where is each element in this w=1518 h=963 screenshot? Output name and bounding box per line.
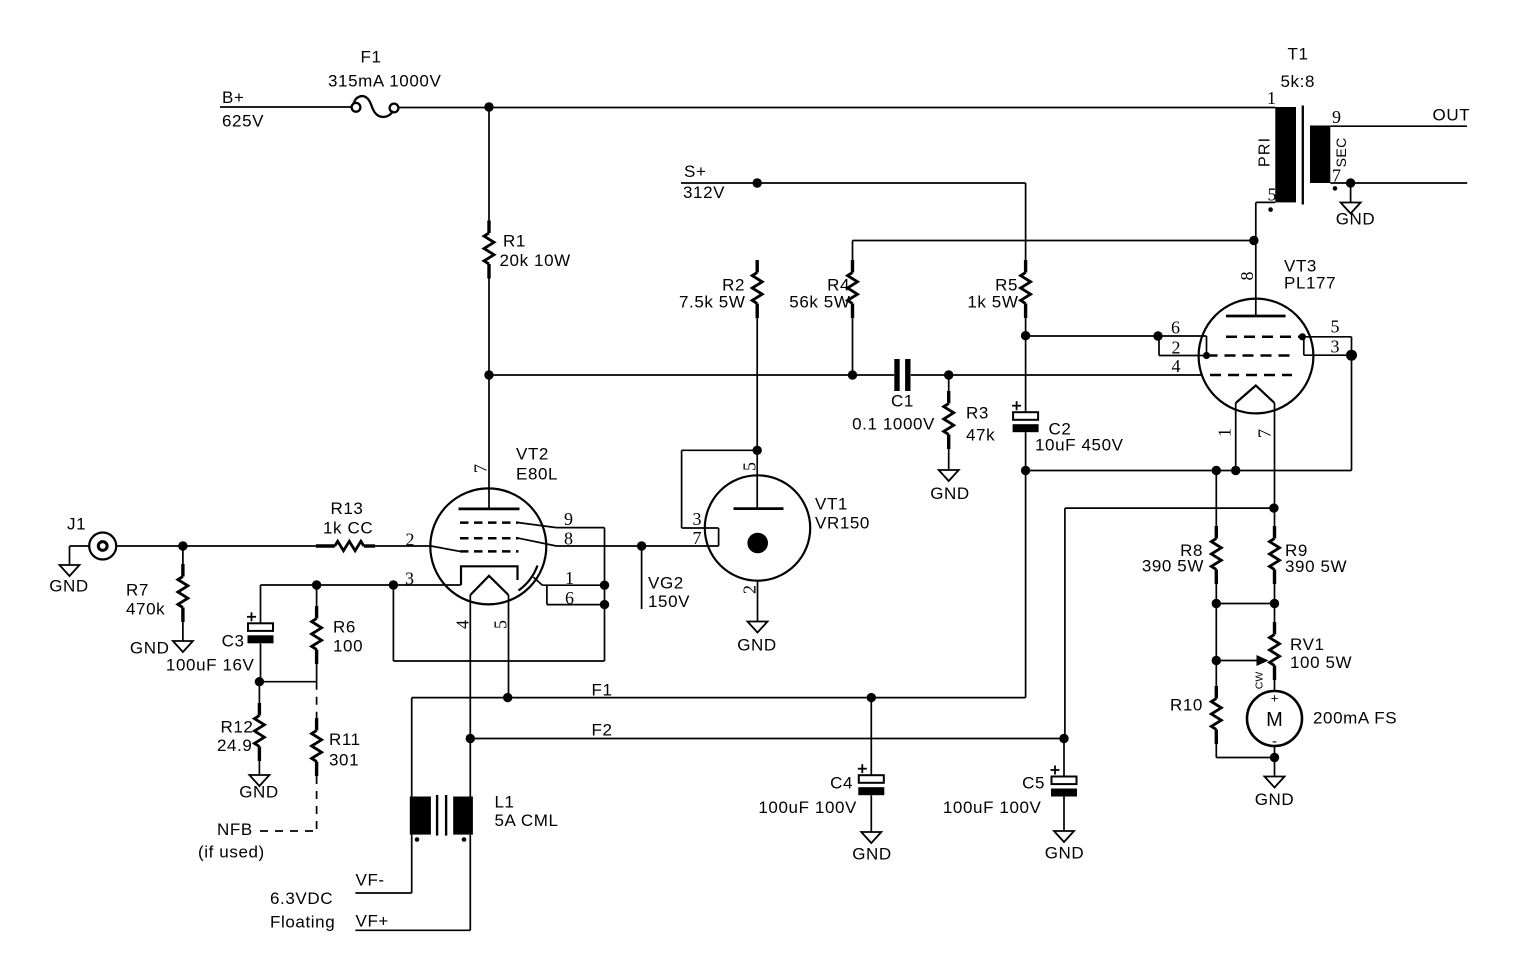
- wire R8 bottom lead: [1215, 584, 1217, 604]
- pin 8 VT3: [1237, 272, 1257, 281]
- svg-text:7.5k 5W: 7.5k 5W: [679, 293, 746, 312]
- svg-text:7: 7: [693, 528, 702, 548]
- wire R11 dashed bottom: [316, 776, 318, 831]
- wire L1 to VF-: [355, 835, 411, 893]
- label R5: [967, 276, 1018, 312]
- svg-text:100: 100: [333, 637, 363, 656]
- svg-text:C5: C5: [1022, 774, 1045, 793]
- resistor R10: [1211, 686, 1221, 744]
- pin 7 VT1: [693, 528, 702, 548]
- svg-text:56k 5W: 56k 5W: [789, 293, 850, 312]
- svg-text:4: 4: [452, 620, 472, 629]
- VT1 gas dot: [747, 533, 768, 554]
- svg-text:OUT: OUT: [1433, 106, 1471, 125]
- wire R3 to ground: [948, 449, 950, 470]
- wire C2 down to F1 corner: [1025, 471, 1027, 698]
- svg-text:100uF 16V: 100uF 16V: [166, 656, 255, 675]
- phase dot T1 secondary: [1333, 186, 1338, 191]
- label L1: [495, 793, 559, 831]
- wire VT2 tie bottom: [393, 660, 604, 662]
- VT2 pin9 diagonal: [519, 523, 557, 528]
- svg-text:GND: GND: [1045, 844, 1085, 863]
- node OUT: [1433, 106, 1471, 125]
- VT2 pin1 diagonal: [533, 577, 542, 585]
- svg-text:3: 3: [1331, 337, 1340, 357]
- svg-text:F2: F2: [592, 721, 613, 740]
- svg-text:5k:8: 5k:8: [1281, 72, 1316, 91]
- wire VT2 pin 3: [261, 584, 462, 586]
- pin 2 VT3: [1172, 338, 1181, 358]
- junction B+/R1: [484, 102, 493, 111]
- pin 7 T1: [1332, 166, 1341, 186]
- ground R12: [239, 775, 279, 802]
- wire C3 drop: [260, 585, 262, 623]
- svg-text:R7: R7: [126, 581, 149, 600]
- label RV1: [1290, 635, 1352, 672]
- wire R2 to VT1 top: [756, 318, 758, 450]
- svg-text:9: 9: [564, 509, 573, 529]
- svg-text:2: 2: [1172, 338, 1181, 358]
- svg-text:J1: J1: [67, 515, 86, 534]
- svg-text:4: 4: [1172, 356, 1181, 376]
- wire R6 bottom lead: [316, 664, 318, 682]
- svg-text:7: 7: [471, 464, 491, 473]
- svg-text:8: 8: [1237, 272, 1257, 281]
- VT2 internal shield: [519, 566, 538, 591]
- VT3 screen grid: [1226, 336, 1302, 339]
- label R11: [329, 730, 361, 770]
- wire VT1 pin7 step: [718, 528, 720, 546]
- label CW: [1254, 672, 1266, 690]
- junction wiper tap: [1212, 656, 1221, 665]
- label R2: [679, 276, 746, 312]
- pin 1 T1: [1267, 88, 1276, 108]
- wire plate node to C1: [489, 374, 894, 376]
- svg-text:SEC: SEC: [1333, 137, 1349, 167]
- svg-text:PL177: PL177: [1284, 274, 1336, 293]
- jack J1: [89, 533, 116, 560]
- wire L1 to VF+: [355, 835, 470, 931]
- wire F2 riser horizontal: [1065, 507, 1274, 509]
- wire VT1 pin3 tie: [682, 450, 758, 528]
- svg-text:6: 6: [1171, 318, 1180, 338]
- net label F2: [592, 721, 613, 740]
- svg-text:6: 6: [565, 588, 574, 608]
- ground meter: [1255, 777, 1295, 810]
- label T1: [1281, 45, 1316, 92]
- resistor R4: [848, 260, 858, 318]
- resistor R1: [484, 221, 494, 279]
- pin 9 VT2: [564, 509, 573, 529]
- junction C1/R3: [944, 370, 953, 379]
- svg-text:R12: R12: [221, 718, 254, 737]
- svg-text:47k: 47k: [966, 426, 995, 445]
- VT3 pin5/pin3 tie: [1302, 337, 1351, 355]
- VT2 plate: [459, 507, 520, 510]
- wire VT2 pin 1: [542, 584, 604, 586]
- svg-text:VR150: VR150: [815, 514, 870, 533]
- svg-text:GND: GND: [930, 484, 970, 503]
- label R13: [323, 499, 373, 538]
- junction T1 pin5/R4/VT3 pin8: [1249, 236, 1258, 245]
- svg-text:100uF 100V: 100uF 100V: [943, 798, 1042, 817]
- capacitor C2: [1012, 401, 1124, 454]
- wire J1 ground stub: [70, 546, 90, 565]
- VT3 pin6/pin2 tie: [1159, 336, 1207, 356]
- junction VT3 pin2/g1: [1203, 352, 1210, 359]
- junction VT2 pin4/F2: [466, 734, 475, 743]
- pin 3 VT3: [1331, 337, 1340, 357]
- wire R3 top lead: [948, 375, 950, 391]
- resistor R9: [1270, 526, 1280, 584]
- wire R8 top lead: [1215, 471, 1217, 527]
- wire R8-R9 link: [1216, 603, 1274, 605]
- choke L1 right winding: [453, 797, 473, 835]
- wire R13 to VT2 pin 2: [375, 545, 431, 547]
- pin 5 T1: [1268, 185, 1277, 205]
- svg-text:F1: F1: [361, 48, 382, 67]
- svg-text:470k: 470k: [126, 600, 165, 619]
- svg-text:1k CC: 1k CC: [323, 519, 373, 538]
- junction C5/F2: [1059, 734, 1068, 743]
- svg-text:R1: R1: [503, 232, 526, 251]
- svg-text:C4: C4: [830, 774, 853, 793]
- pin 5 VT1: [739, 462, 759, 471]
- svg-text:150V: 150V: [648, 592, 690, 611]
- svg-text:S+: S+: [684, 162, 706, 181]
- tube VT2 envelope: [430, 488, 546, 604]
- wire VT3 pin3 down: [1351, 355, 1353, 470]
- pin 3 VT2: [405, 569, 414, 589]
- svg-text:T1: T1: [1288, 45, 1309, 64]
- pin 4 VT2: [452, 620, 472, 629]
- VT2 pin6 jog: [546, 585, 548, 604]
- wire C3-R6 link: [259, 681, 316, 683]
- wire C4 to ground: [870, 795, 872, 832]
- svg-text:6.3VDC: 6.3VDC: [270, 889, 333, 908]
- svg-text:7: 7: [1255, 429, 1275, 438]
- svg-text:1: 1: [1215, 428, 1235, 437]
- svg-text:R6: R6: [333, 618, 356, 637]
- svg-text:R11: R11: [329, 730, 361, 749]
- svg-text:GND: GND: [1336, 210, 1376, 229]
- svg-text:NFB: NFB: [217, 820, 253, 839]
- junction pin1/tie: [600, 581, 609, 590]
- label R3: [966, 404, 995, 445]
- junction R2/VT1 pin5: [753, 446, 762, 455]
- wire J1 to R13: [116, 545, 316, 547]
- wire B+ to F1: [220, 106, 352, 108]
- wire F2: [470, 738, 1065, 740]
- svg-text:100 5W: 100 5W: [1290, 653, 1352, 672]
- VT3 control grid: [1207, 354, 1292, 357]
- svg-text:L1: L1: [495, 793, 515, 812]
- svg-text:GND: GND: [130, 639, 170, 658]
- label heater supply: [270, 889, 335, 932]
- capacitor C3: [166, 612, 274, 674]
- svg-text:2: 2: [739, 585, 759, 594]
- VT2 grid g3: [460, 521, 519, 524]
- svg-text:301: 301: [329, 751, 359, 770]
- svg-text:0.1 1000V: 0.1 1000V: [852, 415, 935, 434]
- resistor R11: [312, 718, 322, 776]
- wire F1 to T1 pin 1: [398, 107, 1275, 109]
- wire R12 top lead: [258, 682, 260, 703]
- wire VT2 pin 8: [556, 545, 718, 547]
- junction pin1/cathode rail: [1231, 466, 1240, 475]
- svg-text:C3: C3: [222, 632, 245, 651]
- label R10: [1170, 696, 1203, 715]
- label R1: [500, 232, 571, 271]
- VT2 grid g2: [460, 537, 519, 540]
- svg-text:VG2: VG2: [648, 574, 684, 593]
- choke L1 left winding: [410, 797, 431, 835]
- wire R7 to ground: [182, 622, 184, 641]
- svg-text:5: 5: [490, 620, 510, 629]
- node B+: [222, 88, 264, 131]
- wire VT2 pin 6: [547, 604, 605, 606]
- wire VT3 pin 1 leg: [1235, 403, 1237, 471]
- VT2 cathode: [461, 566, 518, 585]
- wire R7 top lead: [182, 546, 184, 564]
- svg-text:3: 3: [693, 509, 702, 529]
- svg-text:GND: GND: [852, 845, 892, 864]
- junction R8/R9 link left: [1212, 599, 1221, 608]
- svg-text:5: 5: [1331, 317, 1340, 337]
- svg-text:315mA 1000V: 315mA 1000V: [328, 72, 441, 91]
- label meter rating: [1313, 709, 1397, 728]
- svg-text:Floating: Floating: [270, 913, 335, 932]
- wire F1: [412, 697, 1026, 699]
- svg-text:PRI: PRI: [1256, 137, 1273, 167]
- junction R8/R9 link right: [1270, 599, 1279, 608]
- wire C5 top: [1063, 739, 1065, 777]
- junction S+/R2: [753, 178, 762, 187]
- resistor R3: [944, 391, 954, 449]
- wire R4 top rail: [853, 240, 1254, 242]
- ground R3: [930, 470, 970, 503]
- wire RV1 to meter: [1274, 680, 1276, 691]
- net label F1: [592, 681, 613, 700]
- svg-text:VF+: VF+: [356, 912, 389, 931]
- node VG2: [648, 574, 690, 612]
- junction pin7/F2 riser wire: [1269, 503, 1278, 512]
- pin 7 VT3: [1255, 429, 1275, 438]
- ground VT1: [737, 622, 777, 655]
- node VF+: [356, 912, 389, 931]
- wire VT3 pin 7 leg: [1274, 403, 1276, 526]
- junction VT3 pin3: [1346, 350, 1357, 361]
- RV1 wiper arrow: [1216, 655, 1268, 666]
- svg-text:VT1: VT1: [815, 495, 848, 514]
- wire VT2 tie right vertical: [604, 528, 606, 661]
- svg-text:10uF 450V: 10uF 450V: [1035, 436, 1124, 455]
- wire F2 riser vertical: [1064, 508, 1066, 738]
- node VF-: [356, 871, 385, 890]
- resistor R5: [1021, 260, 1031, 318]
- resistor R6: [312, 606, 322, 664]
- phase dot L1 right: [462, 837, 467, 842]
- pin 7 VT2: [471, 464, 491, 473]
- phase dot T1 primary: [1268, 207, 1273, 212]
- wire T1 pin 5 jog: [1256, 202, 1276, 240]
- ground C4: [852, 832, 892, 864]
- wire link to RV1: [1274, 604, 1276, 623]
- wire VT2 pin 5 leg: [508, 595, 510, 698]
- svg-text:312V: 312V: [683, 183, 725, 202]
- resistor R7: [178, 564, 188, 622]
- wire VT2 pin 9: [556, 527, 604, 529]
- label R6: [333, 618, 363, 656]
- wire R4 to C1 wire: [852, 318, 854, 375]
- junction C2/cathode rail: [1021, 466, 1030, 475]
- junction T1 pin7/GND: [1346, 178, 1355, 187]
- pin 1 VT3: [1215, 428, 1235, 437]
- tube VT3 envelope: [1199, 299, 1314, 414]
- wire VT1 pin 5 lead: [756, 450, 758, 508]
- pin 5 VT3: [1331, 317, 1340, 337]
- ground R7: [130, 639, 193, 658]
- tube VT1 envelope: [705, 475, 810, 580]
- node S+: [683, 162, 725, 202]
- svg-text:24.9: 24.9: [217, 736, 253, 755]
- VT3 plate: [1226, 315, 1286, 318]
- VT2 pin8 diagonal: [519, 538, 557, 546]
- svg-text:+: +: [1271, 691, 1279, 706]
- pin 6 VT3: [1171, 318, 1180, 338]
- fuse F1: [328, 48, 441, 117]
- capacitor C5: [943, 766, 1077, 818]
- wire VT3 pin 8 lead: [1255, 241, 1257, 317]
- svg-text:GND: GND: [1255, 790, 1295, 809]
- capacitor C4: [758, 764, 884, 817]
- potentiometer RV1: [1270, 622, 1280, 680]
- wire C4 top: [870, 698, 872, 776]
- meter M1: [1247, 691, 1302, 751]
- junction grid rail/pin6: [1153, 331, 1162, 340]
- svg-text:RV1: RV1: [1290, 635, 1325, 654]
- wire VT3 grid rail: [1026, 335, 1207, 337]
- junction pin3/tie: [389, 580, 398, 589]
- VT2 pin2 diagonal: [431, 546, 460, 551]
- ground J1: [49, 565, 89, 596]
- resistor R13: [316, 541, 375, 550]
- VT2 heater: [470, 576, 508, 595]
- pin 2 VT2: [406, 530, 415, 550]
- junction R6 top: [312, 580, 321, 589]
- wire T1 pin 7 out: [1330, 182, 1467, 184]
- VT1 plate: [734, 507, 784, 510]
- svg-text:R13: R13: [331, 499, 364, 518]
- svg-text:5: 5: [739, 462, 759, 471]
- wire VT2 tie left vertical: [392, 585, 394, 661]
- svg-text:5A CML: 5A CML: [495, 811, 559, 830]
- svg-text:3: 3: [405, 569, 414, 589]
- pin 8 VT2: [564, 529, 573, 549]
- junction VT2 pin5/F1: [503, 693, 512, 702]
- junction R4/C1 wire: [848, 370, 857, 379]
- pin 6 VT2: [565, 588, 574, 608]
- label R4: [789, 276, 850, 312]
- svg-text:R3: R3: [966, 404, 989, 423]
- wire R11 dashed top: [316, 682, 318, 718]
- svg-text:1: 1: [1267, 88, 1276, 108]
- label R12: [217, 718, 254, 756]
- label J1: [67, 515, 86, 534]
- label VT1: [815, 495, 870, 533]
- svg-text:9: 9: [1332, 107, 1341, 127]
- wire S+ rail: [681, 182, 1026, 184]
- wire R4 top lead: [852, 241, 854, 261]
- svg-text:VF-: VF-: [356, 871, 385, 890]
- junction pin6/tie: [600, 600, 609, 609]
- wire F1 to L1: [411, 698, 413, 797]
- svg-text:100uF 100V: 100uF 100V: [758, 798, 857, 817]
- svg-text:GND: GND: [239, 783, 279, 802]
- junction C3/R12: [255, 677, 264, 686]
- wire R5 to C2: [1025, 318, 1027, 412]
- wire T1 pin7 to ground: [1350, 183, 1352, 203]
- resistor R2: [752, 260, 762, 318]
- pin 4 VT3: [1172, 356, 1181, 376]
- svg-text:M: M: [1266, 709, 1283, 731]
- svg-text:1k 5W: 1k 5W: [967, 293, 1018, 312]
- wire F2 to L1: [469, 739, 471, 797]
- transformer T1 primary winding: [1275, 107, 1296, 202]
- junction R1/C1 wire/VT2 plate: [484, 370, 493, 379]
- transformer T1 secondary winding: [1310, 126, 1330, 184]
- choke L1 core: [437, 795, 446, 836]
- wire R9 bottom lead: [1274, 584, 1276, 604]
- label R8: [1142, 541, 1204, 576]
- junction J1/R7: [178, 541, 187, 550]
- resistor R8: [1211, 526, 1221, 584]
- svg-text:F1: F1: [592, 681, 613, 700]
- wire C3 bottom: [260, 643, 262, 681]
- wire R6 top lead: [316, 585, 318, 606]
- svg-text:5: 5: [1268, 185, 1277, 205]
- label VT3: [1284, 257, 1336, 293]
- wire R1 to VT2 plate node: [488, 279, 490, 376]
- svg-text:200mA FS: 200mA FS: [1313, 709, 1397, 728]
- svg-text:1: 1: [565, 568, 574, 588]
- wire VT2 plate lead: [488, 375, 490, 509]
- pin 2 VT1: [739, 585, 759, 594]
- label R7: [126, 581, 165, 619]
- ground C5: [1045, 831, 1085, 863]
- wire R8 link to wiper: [1215, 604, 1217, 687]
- junction R8/cathode rail: [1212, 466, 1221, 475]
- wire R12 to ground: [258, 761, 260, 775]
- pin 1 VT2: [565, 568, 574, 588]
- wire VT1 pin 2 lead: [757, 581, 759, 622]
- junction R5/VT3 grid wire: [1021, 331, 1030, 340]
- junction VG2: [637, 541, 646, 550]
- svg-text:R10: R10: [1170, 696, 1203, 715]
- label PRI: [1256, 137, 1273, 167]
- svg-text:B+: B+: [222, 88, 244, 107]
- wire R10 bottom jog: [1216, 744, 1274, 758]
- wire meter to ground node: [1274, 746, 1276, 758]
- junction meter/R10/ground: [1270, 753, 1279, 762]
- svg-text:390 5W: 390 5W: [1285, 557, 1347, 576]
- pin 5 VT2: [490, 620, 510, 629]
- pin 9 T1: [1332, 107, 1341, 127]
- pin 3 VT1: [693, 509, 702, 529]
- ground T1 secondary: [1336, 203, 1376, 229]
- svg-text:C1: C1: [891, 392, 914, 411]
- svg-text:GND: GND: [49, 577, 89, 596]
